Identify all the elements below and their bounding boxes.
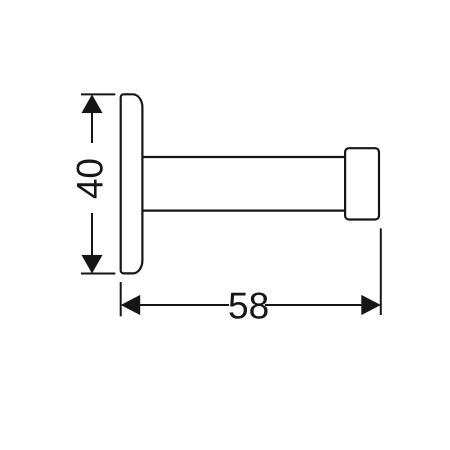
dim 40 top tick xyxy=(81,93,115,95)
dim 58 right arrowhead xyxy=(361,295,381,315)
dim 40 up arrowhead xyxy=(82,94,103,113)
dim 40 down arrowhead xyxy=(82,255,103,274)
dim 58 right extension line xyxy=(380,228,382,315)
dim 58 line right segment xyxy=(265,304,362,306)
dim 58 line left segment xyxy=(139,304,229,306)
hook bar top line xyxy=(142,156,345,158)
dim 40 bottom tick xyxy=(81,273,115,275)
dim 40 line upper segment xyxy=(91,112,93,143)
dim 58 left extension line xyxy=(120,282,122,316)
end knob xyxy=(345,148,379,219)
svg-text:40: 40 xyxy=(69,158,110,199)
dim 58 left arrowhead xyxy=(121,295,141,315)
dim 40 line lower segment xyxy=(91,213,93,256)
hook bar bottom line xyxy=(142,210,345,212)
svg-text:58: 58 xyxy=(228,286,269,327)
wall plate (side view) xyxy=(121,94,143,273)
